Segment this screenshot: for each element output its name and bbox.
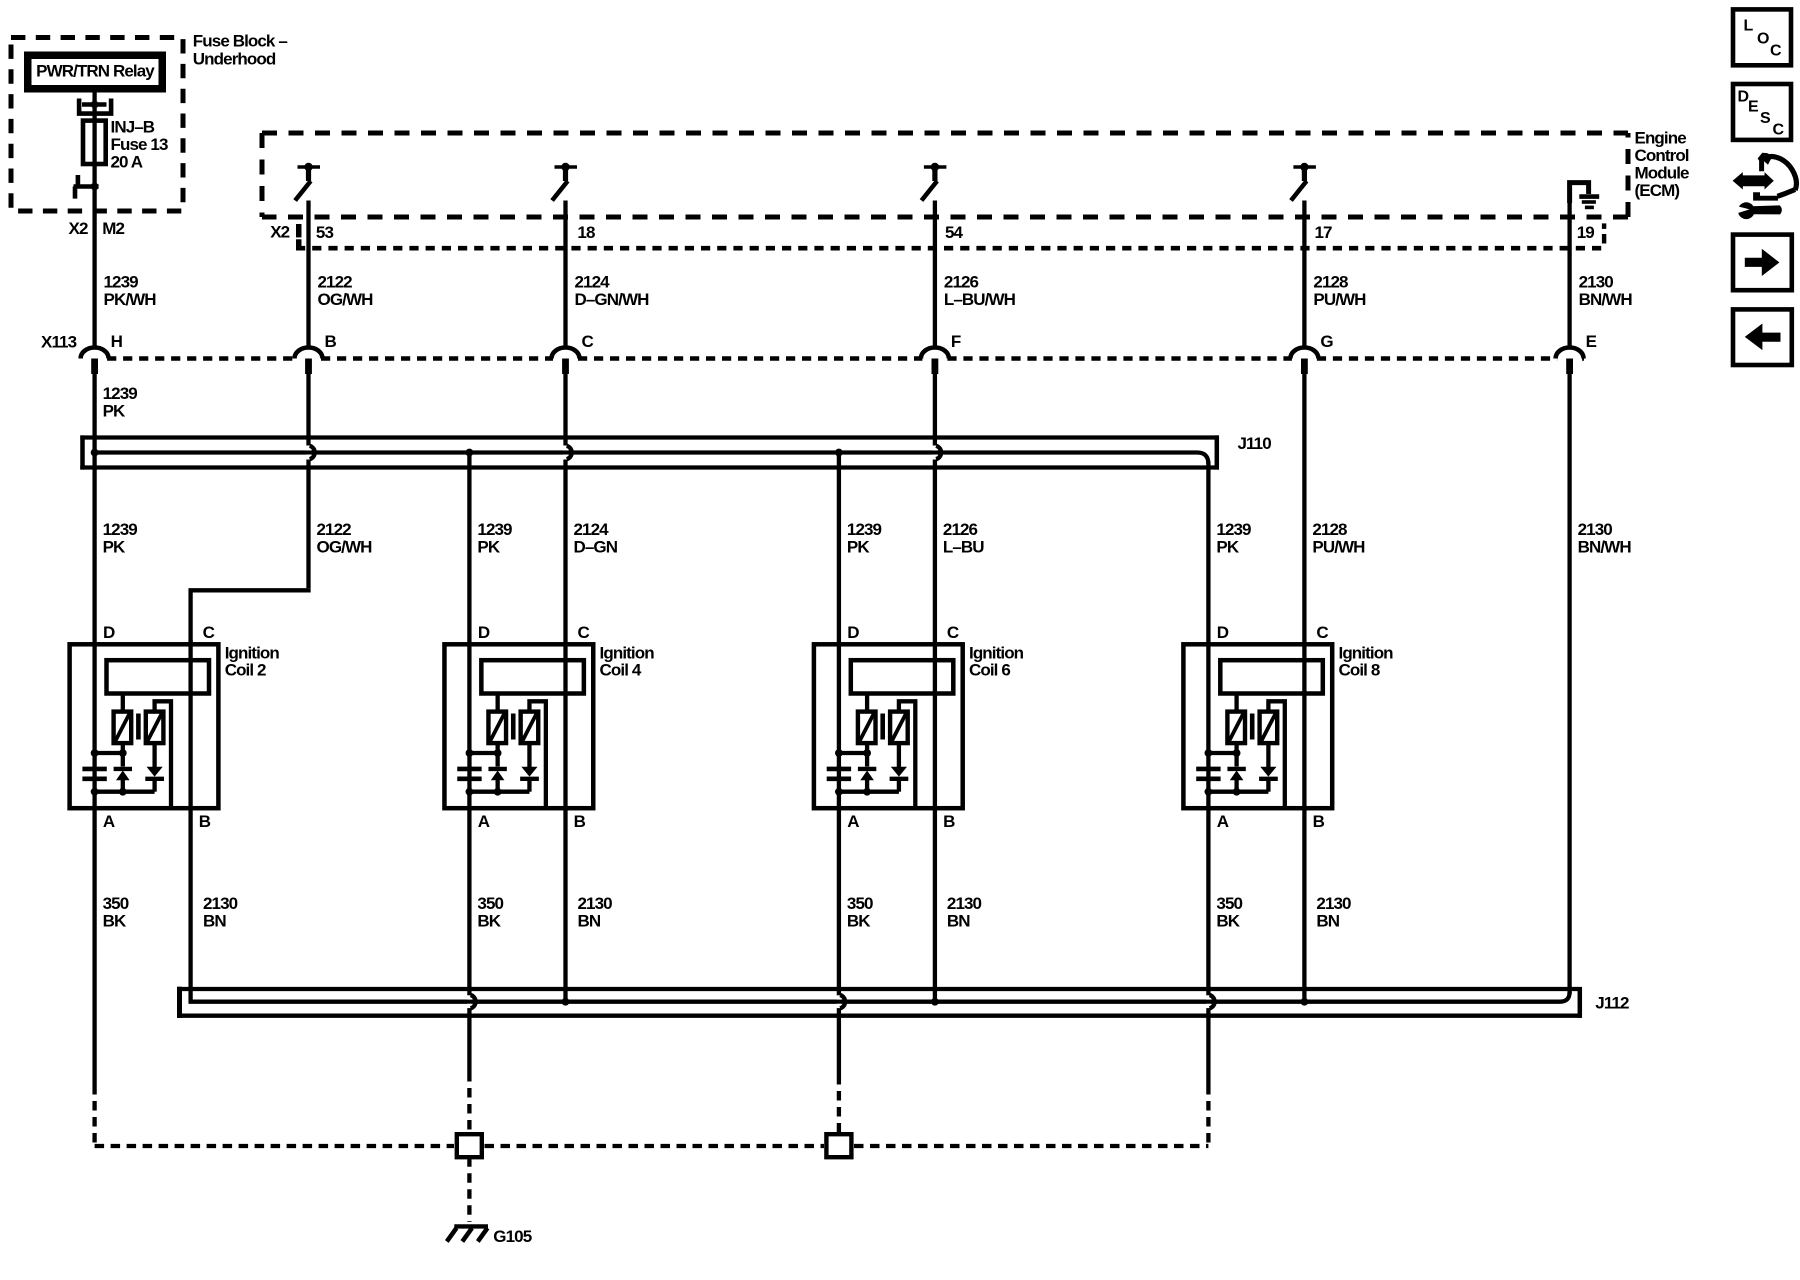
J112 crossover hop (350 BK coil 4) <box>467 995 472 999</box>
secondary winding <box>1260 712 1278 744</box>
zener diode <box>488 767 506 771</box>
secondary winding <box>146 712 164 744</box>
splice pack J112 <box>177 987 1582 991</box>
wire bottom link <box>839 790 899 794</box>
svg-text:2128: 2128 <box>1312 520 1347 539</box>
dashed wire to ground G105 <box>467 1157 471 1222</box>
ignition coil 2 connector body <box>107 660 210 693</box>
transformer core bar <box>880 714 885 740</box>
wire 2124 D-GN/WH ECM 18 to X113 C <box>563 201 567 350</box>
ignition coil 2 outer box <box>70 644 219 808</box>
svg-text:PK/WH: PK/WH <box>104 290 157 309</box>
svg-text:Control: Control <box>1635 146 1689 165</box>
connector tick marks after pin 19 <box>1602 223 1606 229</box>
wire 350 BK dashed to ground net <box>92 1085 96 1146</box>
wire 1239 PK J110 to coil 8 pin D <box>1206 462 1210 753</box>
fuse clip (bottom) <box>74 184 99 189</box>
svg-text:X2: X2 <box>270 223 289 242</box>
svg-text:17: 17 <box>1315 223 1333 242</box>
svg-text:PK: PK <box>1216 538 1239 557</box>
wire 2130 BN/WH X113 E to J112 <box>1567 374 1571 994</box>
ECM internal ground (pin 19) <box>1570 183 1589 203</box>
diagnostic icon (arrows and wrench) <box>1733 172 1774 189</box>
wire 2128 PU/WH ECM 17 to X113 G <box>1302 201 1306 350</box>
junction <box>835 749 843 757</box>
wire zener to bottom link <box>495 780 499 792</box>
fuse INJ-B Fuse 13 20 A <box>83 121 106 164</box>
svg-text:Engine: Engine <box>1635 129 1687 148</box>
svg-text:C: C <box>582 332 594 351</box>
zener diode <box>1227 767 1245 771</box>
splice pack J110 <box>80 435 1219 439</box>
J112 crossover hop (350 BK coil 6) <box>837 995 842 999</box>
svg-text:INJ–B: INJ–B <box>111 118 155 137</box>
capacitor <box>827 767 851 772</box>
wire diode to bottom link <box>897 779 901 792</box>
junction <box>1233 749 1241 757</box>
ignition coil 8 outer box <box>1183 644 1332 808</box>
svg-text:BK: BK <box>477 912 501 931</box>
svg-text:Coil 8: Coil 8 <box>1339 661 1380 680</box>
junction J112 / coil 4 pin B <box>562 998 570 1006</box>
svg-text:B: B <box>325 332 337 351</box>
primary winding <box>488 712 506 744</box>
ECM output driver, pin 17 <box>1293 165 1316 169</box>
junction J112 / coil 6 pin B <box>931 998 939 1006</box>
dashed ground wire left run <box>95 1144 454 1148</box>
zener diode <box>114 767 132 771</box>
svg-text:E: E <box>1586 332 1597 351</box>
ECM X2 connector dotted line <box>296 246 1604 251</box>
svg-text:BK: BK <box>847 912 871 931</box>
svg-text:D: D <box>847 623 859 642</box>
ECM output driver, pin 54 <box>924 165 947 169</box>
svg-text:D: D <box>1738 89 1749 106</box>
svg-text:BN: BN <box>578 912 601 931</box>
wire zener to bottom link <box>121 780 125 792</box>
svg-text:BK: BK <box>103 912 127 931</box>
svg-text:G: G <box>1320 332 1333 351</box>
J110 crossover hop (2122 wire) <box>306 446 311 450</box>
primary winding <box>114 712 132 744</box>
svg-text:2122: 2122 <box>317 520 352 539</box>
svg-text:PK: PK <box>103 538 126 557</box>
wire 2124 D-GN / 2130 BN column to coil 4 and J112 <box>563 460 567 1002</box>
svg-text:B: B <box>199 812 211 831</box>
svg-text:PK: PK <box>847 538 870 557</box>
wire bottom link <box>469 790 529 794</box>
wire diode to bottom link <box>527 779 531 792</box>
wire capacitor column <box>837 753 841 792</box>
ignition coil 6 outer box <box>814 644 963 808</box>
X113 connector terminal B <box>295 348 323 359</box>
junction J110 tap to coil 4 <box>466 449 474 457</box>
svg-text:2130: 2130 <box>1578 520 1613 539</box>
junction <box>1233 788 1241 796</box>
svg-text:A: A <box>478 812 490 831</box>
junction <box>494 788 502 796</box>
svg-text:350: 350 <box>477 894 503 913</box>
svg-text:L: L <box>1744 18 1754 35</box>
wire 2122 OG/WH jog to coil 2 pin C <box>191 588 309 644</box>
wire 1239 PK X113 H to J110 <box>92 374 96 453</box>
wire primary to zener <box>121 743 125 766</box>
wire 1239 PK/WH fuse block M2 to X113 H <box>92 186 96 349</box>
wire 2128 PU/WH X113 G to coil 8 and 2130 BN to J112 <box>1302 374 1306 1002</box>
svg-text:2126: 2126 <box>944 273 979 292</box>
svg-text:A: A <box>1217 812 1229 831</box>
svg-text:PK: PK <box>103 402 126 421</box>
svg-text:54: 54 <box>945 223 964 242</box>
svg-text:D–GN/WH: D–GN/WH <box>575 290 650 309</box>
svg-text:BN/WH: BN/WH <box>1579 290 1633 309</box>
X113 connector terminal H <box>81 348 109 359</box>
ECM output driver, pin 18 <box>555 165 578 169</box>
wire 2130 BN/WH ECM 19 to X113 E <box>1567 203 1571 349</box>
svg-text:C: C <box>1316 623 1328 642</box>
svg-text:350: 350 <box>103 894 129 913</box>
wire primary winding lead <box>495 694 499 713</box>
svg-text:PU/WH: PU/WH <box>1313 290 1366 309</box>
svg-text:D: D <box>103 623 115 642</box>
junction <box>91 788 99 796</box>
junction <box>466 788 474 796</box>
wire secondary winding to case <box>155 701 171 806</box>
junction J110 / 1239 PK feed <box>91 449 99 457</box>
J110 crossover hop (2124 wire) <box>563 446 568 450</box>
Engine Control Module (ECM) dashed enclosure <box>262 133 1628 217</box>
svg-text:OG/WH: OG/WH <box>317 538 373 557</box>
ECM output driver, pin 53 <box>298 165 321 169</box>
svg-text:J110: J110 <box>1238 434 1272 453</box>
svg-text:Fuse 13: Fuse 13 <box>111 135 168 154</box>
wire 350 BK coil 8 pin A below J112 <box>1206 1008 1210 1085</box>
X113 connector terminal F <box>921 348 949 359</box>
svg-text:B: B <box>943 812 955 831</box>
wire 350 BK coil 6 pin A down (crosses J112) <box>837 792 841 996</box>
svg-text:2126: 2126 <box>943 520 978 539</box>
junction <box>863 749 871 757</box>
svg-text:2130: 2130 <box>947 894 982 913</box>
wire 350 BK coil 8 dashed to ground net <box>1206 1085 1210 1144</box>
svg-text:350: 350 <box>847 894 873 913</box>
wire primary winding lead <box>121 694 125 713</box>
wire 1239 PK J110 to coil 6 pin D <box>837 453 841 754</box>
svg-text:1239: 1239 <box>847 520 882 539</box>
svg-text:2130: 2130 <box>578 894 613 913</box>
transformer core bar <box>511 714 516 740</box>
svg-text:BN: BN <box>947 912 970 931</box>
X113 connector terminal C <box>552 348 580 359</box>
wire 350 BK coil 8 pin A down (crosses J112) <box>1206 792 1210 996</box>
capacitor <box>457 767 481 772</box>
svg-text:OG/WH: OG/WH <box>318 290 374 309</box>
wire 350 BK coil 6 pin A below J112 <box>837 1008 841 1075</box>
junction <box>91 749 99 757</box>
left arrow <box>1745 324 1781 351</box>
X113 connector terminal E <box>1556 348 1584 359</box>
wire 1239 PK J110 to coil 2 pin D <box>92 453 96 754</box>
wire capacitor column <box>92 753 96 792</box>
wire 2122 OG/WH below J110 <box>306 460 310 589</box>
svg-text:1239: 1239 <box>104 273 139 292</box>
svg-text:H: H <box>111 332 123 351</box>
wire secondary to diode <box>1266 743 1270 767</box>
svg-text:53: 53 <box>316 223 334 242</box>
junction <box>863 788 871 796</box>
dashed ground wire middle run <box>485 1144 825 1148</box>
splice node (350 BK to G105) <box>457 1134 482 1157</box>
svg-text:X2: X2 <box>69 219 88 238</box>
wire capacitor column <box>1206 753 1210 792</box>
svg-text:PK: PK <box>477 538 500 557</box>
svg-text:D–GN: D–GN <box>574 538 618 557</box>
svg-text:E: E <box>1748 99 1759 116</box>
wire 350 BK coil 4 pin A down (crosses J112) <box>467 792 471 996</box>
wire zener to bottom link <box>1234 780 1238 792</box>
LOC navigation box <box>1733 9 1791 65</box>
wire secondary winding to case <box>899 701 915 806</box>
wire 2126 L-BU / 2130 BN column to coil 6 and J112 <box>933 460 937 1002</box>
wire 350 BK coil 6 dashed to splice <box>837 1075 841 1133</box>
svg-text:B: B <box>1313 812 1325 831</box>
svg-text:350: 350 <box>1216 894 1242 913</box>
svg-text:2124: 2124 <box>575 273 611 292</box>
svg-text:PU/WH: PU/WH <box>1312 538 1365 557</box>
junction <box>119 788 127 796</box>
junction <box>1205 749 1213 757</box>
svg-text:Module: Module <box>1635 164 1690 183</box>
svg-text:Coil 6: Coil 6 <box>969 661 1010 680</box>
wire primary to zener <box>495 743 499 766</box>
junction <box>119 749 127 757</box>
fuse block - underhood dashed enclosure <box>11 38 183 212</box>
primary winding <box>1227 712 1245 744</box>
svg-text:S: S <box>1760 110 1771 127</box>
svg-text:Fuse Block –: Fuse Block – <box>193 32 288 51</box>
wire junction link <box>95 751 123 755</box>
wire secondary winding to case <box>1268 701 1284 806</box>
zener diode <box>858 767 876 771</box>
junction J112 / coil 8 pin B <box>1301 998 1309 1006</box>
junction <box>466 749 474 757</box>
svg-text:A: A <box>103 812 115 831</box>
wire junction link <box>839 751 867 755</box>
svg-text:L–BU: L–BU <box>943 538 984 557</box>
svg-text:1239: 1239 <box>103 384 138 403</box>
ignition coil 4 outer box <box>444 644 593 808</box>
svg-text:Underhood: Underhood <box>193 50 276 69</box>
ignition coil 6 connector body <box>851 660 954 693</box>
wire bottom link <box>95 790 155 794</box>
svg-text:O: O <box>1757 31 1769 48</box>
svg-text:F: F <box>951 332 961 351</box>
svg-text:(ECM): (ECM) <box>1635 181 1680 200</box>
svg-text:2130: 2130 <box>1316 894 1351 913</box>
ground G105 <box>454 1224 488 1228</box>
junction <box>1205 788 1213 796</box>
svg-text:1239: 1239 <box>477 520 512 539</box>
svg-text:18: 18 <box>577 223 595 242</box>
previous-page navigation box (left arrow) <box>1733 309 1792 365</box>
svg-text:B: B <box>574 812 586 831</box>
svg-text:2130: 2130 <box>1579 273 1614 292</box>
svg-text:Coil 2: Coil 2 <box>225 661 266 680</box>
svg-text:1239: 1239 <box>103 520 138 539</box>
svg-text:C: C <box>577 623 589 642</box>
svg-text:2128: 2128 <box>1313 273 1348 292</box>
transformer core bar <box>1250 714 1255 740</box>
connector tick marks after X2 <box>296 224 302 237</box>
svg-text:BN: BN <box>1316 912 1339 931</box>
svg-text:C: C <box>1770 43 1782 60</box>
wire secondary to diode <box>897 743 901 767</box>
wire 1239 PK J110 to coil 4 pin D <box>467 453 471 754</box>
wire primary winding lead <box>1234 694 1238 713</box>
wire relay output to fuse <box>92 93 96 123</box>
junction J110 tap to coil 6 <box>835 449 843 457</box>
svg-text:A: A <box>847 812 859 831</box>
J112 crossover hop (350 BK coil 8) <box>1206 995 1211 999</box>
wire 350 BK coil 2 pin A down <box>92 792 96 1085</box>
wire 2124 D-GN X113 C crossing J110 <box>563 374 567 446</box>
DESC navigation box <box>1733 84 1791 140</box>
junction <box>835 788 843 796</box>
svg-text:BN/WH: BN/WH <box>1578 538 1632 557</box>
svg-text:2124: 2124 <box>574 520 610 539</box>
secondary winding <box>521 712 539 744</box>
secondary winding <box>890 712 908 744</box>
wire diode to bottom link <box>152 779 156 792</box>
ignition coil 8 connector body <box>1220 660 1323 693</box>
X113 connector terminal G <box>1290 348 1318 359</box>
wire 350 BK coil 4 dashed to splice <box>467 1072 471 1132</box>
wire 2122 OG/WH ECM 53 to X113 B <box>306 201 310 350</box>
wire secondary to diode <box>152 743 156 767</box>
PWR/TRN Relay box (black frame) <box>24 52 166 93</box>
wire capacitor column <box>467 753 471 792</box>
ignition coil 4 connector body <box>481 660 583 693</box>
svg-text:BN: BN <box>203 912 226 931</box>
wire bottom link <box>1208 790 1268 794</box>
wire primary winding lead <box>865 694 869 713</box>
wire junction link <box>1208 751 1236 755</box>
wire 2122 OG/WH X113 B crossing J110 <box>306 374 310 446</box>
svg-text:BK: BK <box>1216 912 1240 931</box>
svg-text:D: D <box>478 623 490 642</box>
wire through fuse <box>92 122 96 186</box>
svg-text:PWR/TRN Relay: PWR/TRN Relay <box>36 62 155 81</box>
junction <box>494 749 502 757</box>
svg-text:C: C <box>1773 122 1785 139</box>
capacitor <box>82 767 106 772</box>
fuse clip (top) <box>82 102 107 107</box>
wire junction link <box>469 751 497 755</box>
svg-text:C: C <box>947 623 959 642</box>
svg-text:20 A: 20 A <box>111 153 143 172</box>
wire 350 BK coil 4 pin A below J112 <box>467 1008 471 1072</box>
wire coil 2 pin C / pin B column (2130 BN) <box>188 640 192 1003</box>
svg-text:19: 19 <box>1577 223 1595 242</box>
next-page navigation box (right arrow) <box>1733 235 1792 291</box>
wire diode to bottom link <box>1266 779 1270 792</box>
wire 2126 L-BU/WH ECM 54 to X113 F <box>933 201 937 350</box>
wire primary to zener <box>1234 743 1238 766</box>
svg-text:G105: G105 <box>493 1227 531 1246</box>
svg-text:J112: J112 <box>1595 994 1629 1013</box>
svg-text:D: D <box>1217 623 1229 642</box>
wire secondary winding to case <box>529 701 545 806</box>
right arrow <box>1745 249 1780 276</box>
primary winding <box>858 712 876 744</box>
svg-text:2130: 2130 <box>203 894 238 913</box>
X113 connector dotted line <box>107 356 1584 360</box>
svg-text:1239: 1239 <box>1216 520 1251 539</box>
svg-text:C: C <box>203 623 215 642</box>
svg-text:2122: 2122 <box>318 273 353 292</box>
J110 crossover hop (2126 wire) <box>933 446 938 450</box>
transformer core bar <box>136 714 141 740</box>
wire primary to zener <box>865 743 869 766</box>
svg-text:M2: M2 <box>102 219 124 238</box>
svg-text:X113: X113 <box>41 333 77 352</box>
wire zener to bottom link <box>865 780 869 792</box>
capacitor <box>1196 767 1220 772</box>
wire 2126 L-BU X113 F crossing J110 <box>933 374 937 446</box>
svg-text:L–BU/WH: L–BU/WH <box>944 290 1016 309</box>
svg-text:Coil 4: Coil 4 <box>600 661 642 680</box>
wire secondary to diode <box>527 743 531 767</box>
splice node (350 BK) <box>826 1134 851 1157</box>
dashed ground wire right run <box>854 1144 1208 1148</box>
